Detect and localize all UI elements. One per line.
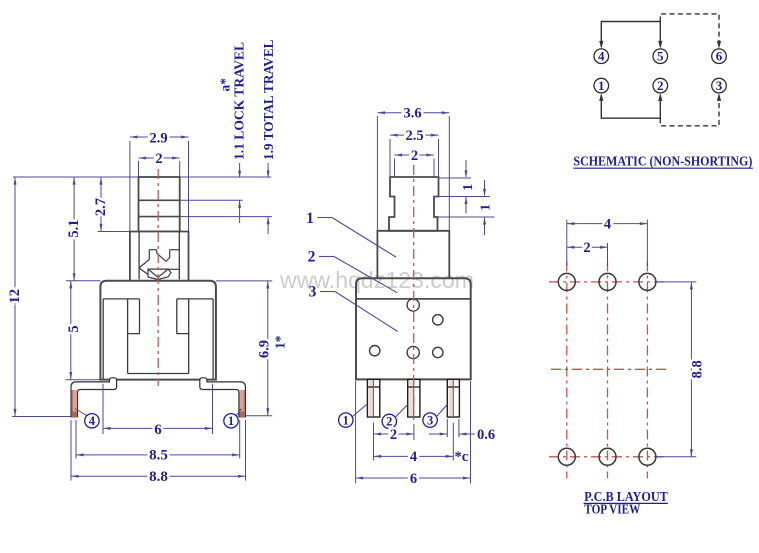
pcb hole 1 xyxy=(558,273,575,290)
svg-text:1: 1 xyxy=(479,204,494,211)
schematic wire dashed bottom xyxy=(660,97,719,126)
svg-text:2.9: 2.9 xyxy=(149,131,167,147)
svg-text:2: 2 xyxy=(657,78,664,93)
side view dim 12 xyxy=(14,177,16,417)
svg-text:8.8: 8.8 xyxy=(149,469,168,485)
front view dim 1 upper xyxy=(465,160,467,177)
pcb centerline vertical col 1 xyxy=(566,262,568,479)
side view dim 8.8 extension lines xyxy=(70,420,72,481)
side view body inner wall left xyxy=(102,299,104,379)
svg-text:6: 6 xyxy=(410,471,417,487)
side view plunger shaft walls xyxy=(138,232,140,280)
pcb centerline row 1 xyxy=(549,281,664,283)
side view body notch right xyxy=(177,299,189,334)
pcb centerline row 2 xyxy=(549,456,664,458)
side view plunger division line 1 xyxy=(139,199,180,201)
front view dim 1 upper extension lines xyxy=(439,177,472,179)
svg-text:5: 5 xyxy=(66,325,82,332)
side view dim 5.1 extension bottom xyxy=(66,280,100,282)
svg-text:2.7: 2.7 xyxy=(93,198,109,216)
side view centerline xyxy=(157,169,159,386)
front view pin 1 xyxy=(367,379,379,417)
svg-text:5.1: 5.1 xyxy=(66,219,82,237)
svg-text:3.6: 3.6 xyxy=(403,106,421,122)
travel extension line lock position xyxy=(180,199,243,201)
side view body cavity wall left xyxy=(127,334,129,374)
side view terminal callout 4 xyxy=(75,409,87,416)
schematic pin 3 xyxy=(712,78,727,93)
side view dim 8.5 extension lines xyxy=(75,420,77,459)
front view plunger profile xyxy=(389,177,439,231)
svg-text:6: 6 xyxy=(154,422,162,438)
side view left terminal lower strip fill xyxy=(72,390,77,417)
pcb dim 8.8 extension bottom xyxy=(656,456,696,458)
svg-text:4: 4 xyxy=(410,449,417,465)
side view dim 6 extension lines xyxy=(102,384,104,434)
front view dim 6 extension lines xyxy=(355,381,357,483)
front view dim 4 xyxy=(374,455,454,457)
side view dim 2.7 xyxy=(100,177,102,232)
front view pin callout 2 xyxy=(382,414,396,428)
side view dim 12 extension top xyxy=(13,176,271,178)
front view dim 1 lower xyxy=(484,180,486,196)
side view plunger division line 2 xyxy=(139,216,180,218)
side view dim 12 extension bottom xyxy=(12,416,70,418)
svg-text:2: 2 xyxy=(411,148,418,164)
svg-text:1.9 TOTAL TRAVEL: 1.9 TOTAL TRAVEL xyxy=(261,40,276,161)
svg-text:2: 2 xyxy=(583,240,590,256)
side view left terminal (pin 4) body xyxy=(71,378,117,417)
svg-text:8.8: 8.8 xyxy=(690,360,706,378)
svg-text:5: 5 xyxy=(657,48,664,63)
side view body inner shelf left xyxy=(103,298,139,300)
side view dim 5 xyxy=(70,281,72,380)
svg-text:3: 3 xyxy=(309,284,317,301)
svg-text:4: 4 xyxy=(89,414,96,428)
pcb hole 2 xyxy=(599,273,616,290)
side view body cavity wall right xyxy=(188,334,190,374)
front view pin callout 3 xyxy=(423,413,437,427)
svg-text:1: 1 xyxy=(598,78,605,93)
side view plunger outline xyxy=(139,177,180,232)
side view body inner shelf right xyxy=(177,298,213,300)
side view dim 5.1 xyxy=(73,177,75,281)
schematic pin 5 xyxy=(653,49,668,64)
schematic pin 2 xyxy=(653,78,668,93)
pcb dim 8.8 xyxy=(690,282,692,457)
side view dim 2.7 extension bottom xyxy=(98,231,130,233)
pcb dim 8.8 extension top xyxy=(656,281,696,283)
pcb centerline vertical col 2 xyxy=(607,262,609,479)
front view dim 2 xyxy=(395,154,435,156)
front view hole upper right xyxy=(433,315,443,325)
front view dim 6 xyxy=(356,477,471,479)
svg-text:1: 1 xyxy=(228,414,234,428)
svg-text:2: 2 xyxy=(390,427,397,443)
side view dim 6.9 extension top xyxy=(216,280,272,282)
front view main body outline xyxy=(356,278,471,379)
side view dim 6.9 xyxy=(267,281,269,416)
schematic title underline xyxy=(573,167,752,169)
pcb hole 6 xyxy=(639,448,656,465)
front view dim 2 (pins) xyxy=(374,433,414,435)
front view body fills (under watermark) xyxy=(389,177,439,231)
schematic pin 1 xyxy=(594,78,609,93)
svg-text:8.5: 8.5 xyxy=(149,448,168,464)
front view hole left xyxy=(370,346,380,356)
side view dim 2.9 xyxy=(130,136,189,138)
svg-text:6: 6 xyxy=(716,48,723,63)
side view dim 2 xyxy=(139,157,180,159)
front view hole right xyxy=(433,347,443,357)
front view cover seam line xyxy=(356,298,471,300)
svg-text:3: 3 xyxy=(427,413,433,427)
svg-text:a*: a* xyxy=(218,78,233,92)
side view right terminal lower strip fill xyxy=(240,390,245,417)
front view hole center xyxy=(407,346,419,358)
pcb hole 5 xyxy=(599,448,616,465)
side view dim 6 xyxy=(103,427,213,429)
travel dim 1.1 arrows xyxy=(239,163,241,176)
side view lock heart-cam detail xyxy=(139,260,149,268)
pcb title underline xyxy=(584,502,668,504)
front view hole top center xyxy=(407,299,419,311)
svg-text:*c: *c xyxy=(455,449,469,465)
side view dim 5 extension bottom xyxy=(65,379,100,381)
front view dim 3.6 xyxy=(377,112,449,114)
side view main body outline xyxy=(100,281,215,380)
pcb dim 4 extension lines xyxy=(566,220,568,266)
svg-text:1: 1 xyxy=(306,210,314,227)
schematic arrow into pin 2 xyxy=(658,93,662,101)
front view dim 2.5 xyxy=(390,134,439,136)
side view dim 2 extension lines xyxy=(138,161,140,177)
schematic arrow into pin 5 xyxy=(658,41,662,49)
svg-text:TOP VIEW: TOP VIEW xyxy=(584,502,640,517)
schematic wire solid bottom xyxy=(601,97,660,118)
svg-text:2.5: 2.5 xyxy=(405,128,423,144)
pcb centerline middle xyxy=(551,368,667,370)
svg-text:4: 4 xyxy=(598,48,605,63)
svg-text:12: 12 xyxy=(7,289,23,304)
svg-text:1.1 LOCK TRAVEL: 1.1 LOCK TRAVEL xyxy=(232,42,247,160)
svg-text:2: 2 xyxy=(155,151,162,167)
pcb dim 4 xyxy=(567,223,648,225)
side view body cavity bottom xyxy=(128,373,189,375)
schematic pin 6 xyxy=(712,49,727,64)
pcb dim 2 extension line xyxy=(607,243,609,266)
schematic arrow into pin 6 xyxy=(717,41,721,49)
schematic arrow into pin 3 xyxy=(717,93,721,101)
side view body notch left xyxy=(128,299,140,334)
pcb hole 4 xyxy=(558,448,575,465)
pcb centerline vertical col 3 xyxy=(646,262,648,479)
schematic arrow into pin 4 xyxy=(599,41,603,49)
front view dim 2 extension lines xyxy=(394,159,396,177)
front view centerline xyxy=(413,165,415,420)
travel extension line total position xyxy=(180,216,272,218)
svg-text:1*: 1* xyxy=(273,335,288,349)
side view step housing xyxy=(130,232,189,281)
schematic wire dashed top xyxy=(660,14,719,45)
side view right terminal (pin 1) body xyxy=(200,378,246,417)
front view step block xyxy=(377,231,449,278)
side view body inner wall right xyxy=(212,299,214,379)
front view dim 3.6 extension lines xyxy=(376,116,378,230)
side view dim 6.9 extension bottom xyxy=(246,415,272,417)
schematic pin 4 xyxy=(594,49,609,64)
svg-text:6.9: 6.9 xyxy=(257,340,273,358)
front view pin 2 xyxy=(408,379,420,417)
side view dim 8.8 xyxy=(71,475,246,477)
pcb hole 3 xyxy=(639,273,656,290)
schematic wire solid top xyxy=(601,22,660,46)
side view dim 8.5 xyxy=(76,454,240,456)
front view pin 3 xyxy=(447,379,459,417)
svg-text:3: 3 xyxy=(716,78,723,93)
svg-text:1: 1 xyxy=(461,184,476,191)
front view pin callout 1 xyxy=(339,413,353,427)
travel dim 1.9 arrows xyxy=(267,163,269,176)
front view dim 2.5 extension lines xyxy=(389,139,391,176)
svg-text:SCHEMATIC (NON-SHORTING): SCHEMATIC (NON-SHORTING) xyxy=(573,153,752,168)
schematic arrow into pin 1 xyxy=(599,93,603,101)
front view dim 0.6 xyxy=(429,433,447,435)
svg-text:2: 2 xyxy=(308,249,316,266)
side view terminal callout 1 xyxy=(236,409,241,416)
svg-text:4: 4 xyxy=(604,216,611,232)
pcb dim 2 xyxy=(567,246,608,248)
svg-text:1: 1 xyxy=(343,413,349,427)
front view pin dim extension lines xyxy=(373,423,375,461)
svg-text:0.6: 0.6 xyxy=(477,427,495,443)
side view dim 2.9 extension lines xyxy=(129,141,131,231)
